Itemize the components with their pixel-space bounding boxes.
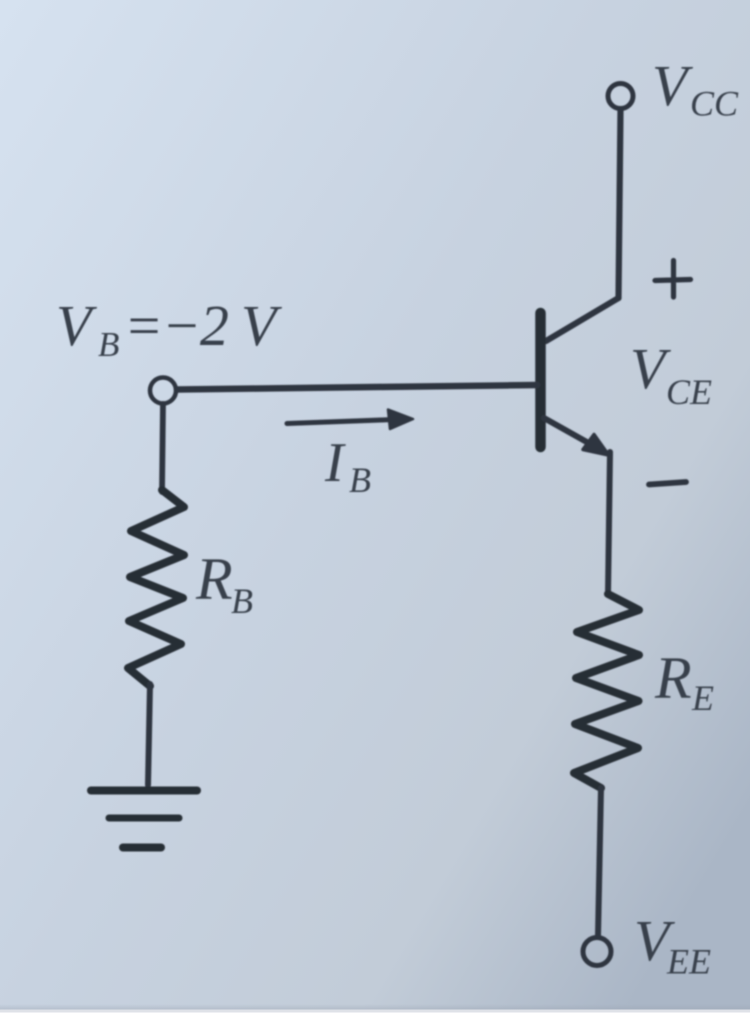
wire node to RB [162,404,163,492]
svg-text:EE: EE [666,942,711,982]
svg-text:B: B [349,460,371,500]
white paper strip [0,1011,750,1024]
current arrow IB shaft [287,420,394,424]
transistor Q1 emitter diagonal [544,418,601,450]
terminal circle VEE [583,938,611,966]
minus sign [649,482,686,485]
svg-text:B: B [231,581,253,621]
resistor RE zigzag [574,594,639,788]
node circle VB terminal [150,378,176,404]
svg-text:B: B [98,325,119,364]
wire RB to ground [148,684,150,785]
ground bar 1 [91,787,197,795]
current arrow IB head [388,410,413,430]
resistor RB zigzag [128,490,184,686]
svg-text:I: I [324,432,346,494]
wire emitter vertical [608,452,610,594]
transistor Q1 emitter arrowhead [583,435,609,456]
wire base horizontal [177,385,537,390]
terminal circle VCC [608,84,633,109]
transistor Q1 collector diagonal [546,298,619,341]
plus sign [655,261,691,298]
wire collector vertical [619,110,621,298]
svg-text:=−2 V: =−2 V [124,293,283,358]
photo bottom shadow edge [0,1004,750,1012]
ground bar 2 [109,815,179,822]
svg-text:R: R [654,645,692,711]
ground bar 3 [123,844,161,852]
svg-text:E: E [691,678,714,718]
wire RE to VEE [598,788,601,936]
transistor Q1 base bar [535,313,546,447]
svg-text:R: R [195,546,233,612]
svg-text:CC: CC [690,84,739,124]
svg-text:CE: CE [666,372,712,412]
